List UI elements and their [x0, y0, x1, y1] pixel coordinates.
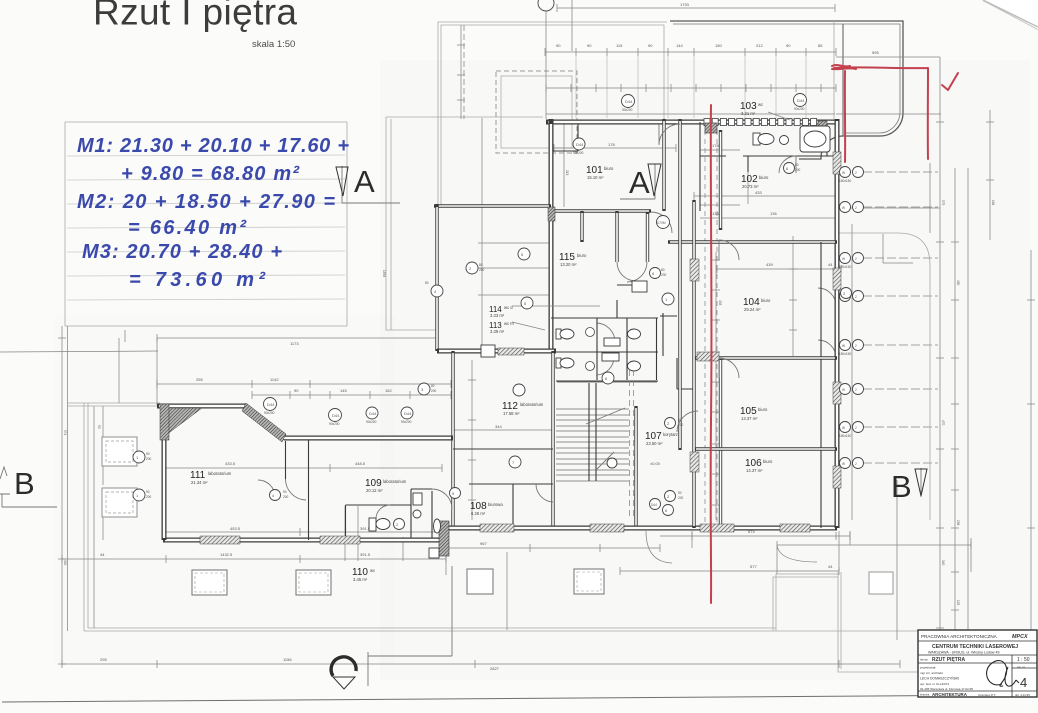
svg-text:90: 90 [146, 490, 150, 494]
pillar: terrace 3 [467, 569, 493, 594]
svg-text:branża:: branża: [920, 693, 930, 697]
pillar: terrace 1 [192, 570, 227, 595]
room label 108 [470, 501, 503, 516]
door arc: 105 entry [719, 358, 739, 378]
svg-text:wc: wc [758, 102, 763, 107]
svg-text:wc d: wc d [504, 305, 513, 310]
room label 115 [559, 252, 587, 267]
terrace bottom edge [84, 628, 1010, 631]
svg-text:3.45 m²: 3.45 m² [353, 577, 368, 582]
right dim vertical x968 [967, 168, 969, 643]
svg-text:D44: D44 [625, 99, 633, 104]
window hatch: chimney at bottom wall [439, 521, 449, 556]
room label 104 [743, 297, 771, 312]
left wing inner top dim [166, 461, 442, 472]
svg-text:80: 80 [479, 263, 483, 267]
svg-text:biuro: biuro [761, 298, 771, 303]
wall: left wing west x164 [162, 404, 167, 540]
circled tag 6 [133, 489, 152, 501]
svg-text:255: 255 [196, 377, 203, 382]
fixture: wc sink row1 [604, 338, 620, 346]
fixture: wc sink oval row2 [628, 361, 641, 371]
circled tag wc row2 [586, 362, 595, 371]
balcony inner left edge [842, 24, 844, 136]
svg-text:biuro: biuro [759, 175, 769, 180]
annex interior dim column [457, 25, 465, 119]
door arc: 105 from corridor [677, 411, 698, 432]
svg-text:575: 575 [941, 200, 945, 206]
interior dim 101 [554, 142, 676, 152]
svg-text:LECH DOMASZCZYŃSKI: LECH DOMASZCZYŃSKI [920, 677, 959, 681]
interior dim 102 [694, 190, 836, 200]
circled tag pair row y427 [839, 422, 864, 439]
bottom dim row y559 [62, 552, 446, 563]
svg-text:laboratorium: laboratorium [383, 479, 407, 484]
wall: stairwell left x553 [551, 351, 554, 528]
terrace top edge left [67, 403, 160, 406]
svg-text:574: 574 [63, 430, 67, 436]
scan paper edge top right [983, 0, 1038, 29]
svg-text:upr. bud. nr St-143/74: upr. bud. nr St-143/74 [920, 682, 949, 686]
svg-text:WARSZAWA - URSUS, ul. Wiosny L: WARSZAWA - URSUS, ul. Wiosny Ludów 49 [928, 651, 1000, 655]
wall: right inner face x821 [820, 242, 822, 528]
room label 112 [502, 401, 544, 416]
svg-text:2: 2 [855, 171, 857, 175]
svg-text:B: B [891, 469, 912, 504]
room label 113 [489, 321, 514, 334]
svg-text:korytarz: korytarz [663, 432, 678, 437]
svg-text:13.20 m²: 13.20 m² [560, 262, 577, 267]
room111 bottom dim [166, 526, 446, 536]
balcony lower line [836, 113, 941, 115]
svg-text:595: 595 [872, 50, 879, 55]
bottom dim row y571 [620, 564, 839, 575]
window hatch: right wall windows [833, 152, 841, 488]
svg-text:wc m: wc m [504, 321, 514, 326]
svg-text:178: 178 [608, 142, 615, 147]
circled tag D44 in 101 [573, 138, 585, 155]
page bottom rule [2, 695, 1016, 702]
svg-text:= 66.40 m²: = 66.40 m² [128, 217, 247, 239]
tub niche wall [826, 122, 828, 156]
section marker A left [336, 164, 400, 203]
svg-text:200: 200 [283, 495, 289, 499]
door arc room104 right wall [818, 288, 836, 306]
svg-text:1432.5: 1432.5 [220, 552, 233, 557]
wall: y351 horizontal [437, 349, 556, 354]
svg-text:213: 213 [565, 170, 569, 176]
handwritten note M1 line1 [77, 135, 349, 157]
circled tag 10 [518, 248, 530, 260]
title block [918, 630, 1037, 697]
top-left annex outline [438, 22, 667, 205]
note box frame [65, 122, 347, 326]
door arc: wc row1 [596, 323, 615, 342]
door arc: 108 door [536, 484, 553, 502]
svg-text:90: 90 [97, 425, 101, 429]
wall: 102 west x720 [719, 130, 722, 230]
circled tag near 102 [841, 288, 852, 299]
svg-text:448.5: 448.5 [355, 461, 366, 466]
svg-text:200: 200 [661, 273, 667, 277]
wall: niche 104 corridor [677, 358, 694, 389]
svg-text:PRACOWNIA ARCHITEKTONICZNA: PRACOWNIA ARCHITEKTONICZNA [921, 634, 998, 639]
svg-text:4: 4 [1020, 675, 1027, 690]
interior dim 112 [453, 424, 553, 430]
corridor axis dashed lines [705, 130, 717, 528]
wall: step y206 [434, 204, 551, 207]
top dim stub x572 [571, 0, 573, 51]
svg-text:W: W [842, 344, 845, 348]
door arc: vestibule top [651, 212, 672, 233]
balcony left edge x834 [833, 21, 835, 119]
right dim vertical x897 [896, 480, 898, 640]
fixture: small box room108 [481, 345, 495, 357]
circled tag wc row1 [586, 328, 595, 337]
svg-text:mgr inż. architekt: mgr inż. architekt [920, 671, 943, 675]
left dims small verticals [97, 406, 103, 540]
handwritten note M3 line2 [129, 269, 266, 291]
svg-text:1793: 1793 [680, 2, 690, 7]
bottom-most dim line y664 [62, 657, 900, 671]
svg-text:145: 145 [340, 388, 347, 393]
svg-text:1142: 1142 [270, 377, 279, 382]
interior dim 104 [717, 262, 841, 273]
fixture: sink near stairs [607, 458, 617, 468]
svg-text:90x200: 90x200 [573, 151, 584, 155]
svg-text:20.12 m²: 20.12 m² [366, 488, 383, 493]
svg-text:90x200: 90x200 [264, 411, 275, 415]
terrace bottom-right corner [838, 572, 975, 672]
stair rails [589, 383, 596, 481]
left dim row y384 [157, 377, 451, 388]
svg-text:W: W [842, 388, 845, 392]
pillar: left wall lower [102, 488, 137, 517]
svg-text:14.37 m²: 14.37 m² [746, 468, 763, 473]
room112 dim column [468, 360, 476, 520]
right dim vertical x972 short [970, 538, 972, 572]
title: Rzut I pietra [93, 0, 297, 33]
svg-text:340: 340 [63, 560, 67, 566]
svg-text:453.5: 453.5 [230, 526, 241, 531]
fixture: wc103 tub [800, 126, 830, 152]
room label 107 [645, 431, 678, 446]
wall: closet south y285 [617, 284, 647, 286]
window hatch: bottom wall windows [480, 524, 810, 532]
svg-text:3.39 m²: 3.39 m² [490, 329, 505, 334]
door arc: room 101 top [659, 124, 680, 145]
section marker B left [0, 466, 57, 507]
svg-text:M1: 21.30 + 20.10 + 17.60 +: M1: 21.30 + 20.10 + 17.60 + [77, 135, 349, 157]
svg-text:biuro: biuro [758, 407, 768, 412]
dimension row right y57 [836, 50, 940, 57]
fixture: wc sink oval row1 [628, 329, 641, 339]
circled tag 8b [401, 407, 413, 424]
bottom dim row y545 [777, 541, 971, 549]
svg-text:2: 2 [855, 462, 857, 466]
right dim vertical x1031 [1027, 250, 1035, 643]
wall: x582 vertical below 101 [580, 211, 583, 242]
svg-text:D44: D44 [404, 411, 412, 416]
svg-text:85: 85 [818, 43, 823, 48]
svg-text:2: 2 [855, 295, 857, 299]
wall: vestibule door arc [617, 262, 636, 281]
interior small dims wc area [700, 160, 836, 218]
signature [987, 661, 1019, 687]
wall: shaft left of corridor [660, 313, 677, 356]
circled tag pair row y172 [839, 167, 864, 184]
corridor dim string [712, 252, 722, 520]
svg-text:144: 144 [676, 43, 683, 48]
svg-text:150x150: 150x150 [839, 179, 851, 183]
svg-text:6.26 m²: 6.26 m² [471, 511, 486, 516]
svg-text:biuro: biuro [604, 166, 614, 171]
leader lines 113 114 [512, 306, 600, 330]
section marker C bottom [331, 657, 356, 689]
pillar: left wall upper [102, 437, 137, 466]
wall: right main x837 [835, 119, 840, 528]
left dim vertical x119 [118, 338, 120, 403]
svg-text:CENTRUM TECHNIKI LASEROWEJ: CENTRUM TECHNIKI LASEROWEJ [932, 644, 1018, 650]
vertical gridline from bubble [463, 25, 465, 119]
wall: bottom left wing [163, 538, 449, 543]
wall: left mid vertical x437 [435, 204, 438, 351]
svg-text:90: 90 [146, 452, 150, 456]
svg-text:15.10 m²: 15.10 m² [587, 175, 604, 180]
svg-text:+ 9.80 = 68.80 m²: + 9.80 = 68.80 m² [121, 163, 300, 185]
svg-text:biuro: biuro [763, 459, 773, 464]
stairwell dashed boundary [630, 370, 634, 518]
wall: hall south y449 [453, 448, 553, 450]
fixture: cabinet vestibule [632, 281, 647, 292]
svg-text:391.5: 391.5 [360, 552, 371, 557]
svg-text:90: 90 [678, 491, 682, 495]
pillar: terrace 5 [869, 572, 893, 594]
circled tag 11 [521, 297, 533, 309]
svg-text:115: 115 [616, 43, 623, 48]
svg-text:29.24 m²: 29.24 m² [744, 307, 761, 312]
room label 103 [740, 101, 763, 116]
wall: upper left vertical [549, 119, 554, 351]
subtitle: skala 1:50 [252, 39, 295, 50]
right dim tiny labels [63, 200, 995, 606]
right terrace step ladder [863, 163, 938, 463]
fixture: wc114 toilet [556, 329, 574, 339]
door arc room104b right wall [818, 340, 836, 358]
svg-text:2: 2 [855, 344, 857, 348]
fixture: wc103 sink [780, 136, 789, 145]
svg-text:1558: 1558 [382, 270, 386, 277]
svg-text:184: 184 [991, 200, 995, 206]
wall: wc110 partition [346, 489, 433, 538]
svg-text:344: 344 [495, 424, 502, 429]
right dim vertical x990 [986, 110, 994, 240]
svg-text:D70M: D70M [657, 221, 666, 225]
fixture: sink mid hall [513, 384, 525, 396]
fixture: 109 basin rect [413, 493, 422, 505]
svg-text:200: 200 [678, 423, 684, 427]
wall: 105 west x720 [719, 358, 722, 528]
svg-text:D44: D44 [267, 402, 275, 407]
dimension row top y52 [545, 43, 836, 56]
svg-text:Czerwiec P.T.: Czerwiec P.T. [978, 693, 996, 697]
svg-text:136: 136 [770, 211, 777, 216]
wall: stairwell right x636 [634, 406, 637, 528]
left margin line above B [0, 351, 158, 352]
grid bubble top [538, 0, 554, 119]
wall: 101/102 divider x678 [662, 119, 665, 211]
wall face line y114 [546, 113, 835, 115]
svg-text:200: 200 [146, 457, 152, 461]
svg-text:temat:: temat: [920, 658, 929, 662]
circled tag 9 [466, 262, 485, 274]
circled tag 1 [622, 95, 635, 113]
pillar: terrace 4 [574, 569, 604, 594]
room label 110 [352, 567, 375, 582]
svg-text:rys. nr: rys. nr [1017, 665, 1025, 669]
svg-text:23.50 m²: 23.50 m² [646, 441, 663, 446]
right dim vertical x940 [936, 57, 944, 661]
room label 111 [190, 470, 232, 485]
wall: wc103 west x700 [700, 122, 748, 211]
quarter arc near corridor exit [646, 531, 672, 563]
terrace right outline steps [773, 574, 838, 631]
svg-text:212: 212 [756, 43, 763, 48]
wall: top main [546, 120, 837, 125]
fixture: wc110 sink [413, 510, 421, 518]
svg-text:3.21 m²: 3.21 m² [741, 111, 756, 116]
svg-text:W: W [842, 171, 845, 175]
window hatch: corridor wall blocks [690, 259, 719, 472]
svg-text:02-495 Warszawa ul. Klonowa 17: 02-495 Warszawa ul. Klonowa 17.02.95 [920, 687, 973, 691]
circled tag pair row y258 [839, 253, 864, 270]
svg-text:2: 2 [855, 426, 857, 430]
wall: closet in 101 corner [553, 124, 578, 151]
svg-text:biuro: biuro [577, 253, 587, 258]
note box ruled lines [67, 155, 345, 300]
handwritten note M1 line2 [121, 163, 300, 185]
circled tag 116 area [650, 268, 667, 279]
wall: 111/109 divider x308 [308, 440, 310, 540]
svg-text:200: 200 [479, 268, 485, 272]
svg-text:577: 577 [750, 564, 757, 569]
fixture: wc110 toilet [369, 518, 390, 531]
svg-text:13.37 m²: 13.37 m² [741, 416, 758, 421]
window hatch: corridor axis block [705, 123, 717, 133]
svg-text:D44: D44 [332, 413, 340, 418]
circled tag 3 [264, 398, 277, 416]
door arc: wc110 door [376, 505, 390, 519]
handwritten note M2 line1 [77, 191, 335, 213]
svg-text:2: 2 [855, 388, 857, 392]
door arc: wc row2 [596, 357, 614, 375]
svg-text:1 : 50: 1 : 50 [1017, 657, 1030, 663]
wall: partition x285 in wing [285, 441, 287, 479]
dimension row y88 [546, 84, 836, 92]
interior dims west room [478, 118, 549, 351]
svg-text:298: 298 [956, 520, 960, 526]
door arc: partition door [286, 479, 307, 500]
door arc: 104 entry top [719, 240, 739, 260]
svg-text:200: 200 [795, 168, 801, 172]
circled tag near 109 door [450, 488, 461, 499]
svg-text:2: 2 [855, 257, 857, 261]
wall: 101 south y211 [551, 209, 651, 212]
svg-text:ARCHITEKTURA: ARCHITEKTURA [932, 692, 968, 697]
section C leader lines [368, 566, 452, 686]
left dim line 1173 [125, 330, 438, 346]
room label 106 [745, 458, 773, 473]
svg-text:wc: wc [370, 568, 375, 573]
svg-text:Rzut I piętra: Rzut I piętra [93, 0, 297, 33]
small box below chimney [429, 548, 439, 558]
svg-text:433: 433 [718, 300, 722, 306]
svg-text:80: 80 [661, 268, 665, 272]
room label 101 [586, 165, 614, 180]
fixture: wc103 toilet [753, 133, 774, 145]
fixture: wc sink row2 [602, 353, 619, 361]
svg-text:150x150: 150x150 [839, 434, 851, 438]
leader line 103 [768, 112, 790, 120]
left boundary vertical x157 [156, 338, 158, 405]
svg-text:162: 162 [385, 388, 392, 393]
svg-text:44: 44 [828, 262, 833, 267]
svg-text:= 73.60 m²: = 73.60 m² [129, 269, 266, 291]
svg-text:340: 340 [941, 560, 945, 566]
svg-text:laboratorium: laboratorium [520, 402, 544, 407]
svg-text:80: 80 [425, 281, 429, 285]
wing dim extensions [345, 506, 507, 630]
svg-text:90x200: 90x200 [329, 422, 340, 426]
door arc: closet [627, 262, 647, 282]
svg-text:150x150: 150x150 [839, 265, 851, 269]
svg-text:138: 138 [712, 211, 719, 216]
red correction vertical line [710, 105, 713, 603]
svg-text:44: 44 [100, 552, 105, 557]
svg-text:20.73 m²: 20.73 m² [742, 184, 759, 189]
circled tag pair row y296 [840, 291, 864, 302]
room label 109 [365, 478, 407, 493]
svg-text:2827: 2827 [490, 666, 500, 671]
interior dim vertical 101 [564, 122, 569, 207]
red check mark [942, 73, 958, 90]
dimension line top 1793 [557, 2, 835, 12]
svg-text:295: 295 [100, 657, 107, 662]
svg-text:430: 430 [956, 280, 960, 286]
svg-text:200: 200 [146, 495, 152, 499]
handwritten note M2 line2 [128, 217, 247, 239]
stair slash marks [586, 408, 625, 470]
svg-text:433: 433 [755, 190, 762, 195]
circled tag pair row y389 [840, 384, 864, 395]
svg-text:W: W [842, 257, 845, 261]
window hatch: left wing bottom wall [200, 536, 360, 544]
circled tag room102 low [662, 293, 674, 305]
bottom dim row y536 [660, 529, 850, 540]
circled tag 7 [418, 383, 437, 395]
circled tag pair row y207 [840, 202, 864, 213]
pillar: terrace 2 [296, 570, 331, 595]
svg-text:90x200: 90x200 [401, 420, 412, 424]
svg-text:200: 200 [431, 389, 437, 393]
door arc: 111 door [258, 480, 275, 497]
circled tag vestibule top [657, 216, 670, 229]
door arc: shower room door [432, 489, 452, 509]
svg-text:200: 200 [678, 496, 684, 500]
svg-text:B: B [14, 466, 35, 501]
svg-text:90x200: 90x200 [622, 108, 633, 112]
svg-text:90: 90 [283, 490, 287, 494]
